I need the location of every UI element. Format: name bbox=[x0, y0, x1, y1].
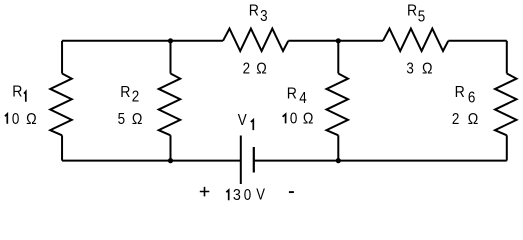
svg-text:R: R bbox=[455, 83, 465, 101]
wire right top stub bbox=[506, 41, 508, 74]
svg-text:R: R bbox=[120, 83, 130, 101]
svg-text:Ω: Ω bbox=[256, 60, 267, 78]
battery V1 positive long plate bbox=[240, 136, 242, 185]
resistor R2 bbox=[159, 74, 181, 136]
resistor R1 bbox=[50, 74, 72, 136]
wire top segment from R3 to R5 bbox=[288, 40, 383, 42]
svg-text:Ω: Ω bbox=[468, 110, 479, 128]
wire left bottom stub bbox=[61, 135, 63, 160]
node dot top right junction bbox=[336, 38, 341, 43]
wire R4 branch top stub bbox=[337, 41, 339, 74]
svg-text:4: 4 bbox=[299, 90, 306, 107]
value 130 digit 1 bbox=[226, 190, 228, 200]
svg-text:0: 0 bbox=[290, 110, 297, 127]
wire R2 branch top stub bbox=[170, 41, 172, 74]
svg-text:5: 5 bbox=[418, 8, 425, 25]
svg-text:2: 2 bbox=[132, 89, 139, 106]
svg-text:R: R bbox=[287, 85, 297, 103]
wire R2 branch bottom stub bbox=[170, 135, 172, 160]
svg-text:3: 3 bbox=[233, 187, 241, 205]
svg-text:Ω: Ω bbox=[132, 110, 143, 128]
svg-text:2: 2 bbox=[452, 111, 459, 128]
value R4 digit 1 bbox=[283, 114, 286, 123]
resistor R5 bbox=[383, 29, 448, 51]
svg-text:3: 3 bbox=[260, 8, 267, 25]
svg-text:R: R bbox=[407, 2, 417, 20]
minus sign battery polarity bbox=[289, 191, 294, 193]
wire top segment from R5 to right corner bbox=[448, 40, 507, 42]
svg-text:R: R bbox=[12, 83, 22, 101]
svg-text:R: R bbox=[249, 2, 259, 20]
node dot top left junction bbox=[168, 38, 173, 43]
svg-text:Ω: Ω bbox=[303, 110, 314, 128]
svg-text:2: 2 bbox=[243, 61, 250, 78]
resistor R4 bbox=[327, 74, 349, 136]
battery V1 negative short plate bbox=[253, 147, 255, 173]
resistor R3 bbox=[223, 29, 288, 51]
svg-text:5: 5 bbox=[118, 111, 125, 128]
svg-text:0: 0 bbox=[244, 187, 251, 204]
wire right bottom stub bbox=[506, 135, 508, 160]
wire top segment from left corner to R3 bbox=[62, 40, 223, 42]
svg-text:V: V bbox=[238, 112, 247, 129]
label V1 subscript 1 bbox=[251, 120, 254, 130]
wire bottom segment from battery to right corner bbox=[254, 160, 507, 162]
svg-text:6: 6 bbox=[468, 90, 475, 107]
resistor R6 bbox=[495, 74, 517, 136]
wire bottom segment from left corner to battery bbox=[62, 160, 241, 162]
wire R4 branch bottom stub bbox=[337, 135, 339, 160]
svg-text:3: 3 bbox=[406, 61, 413, 78]
svg-text:Ω: Ω bbox=[422, 60, 433, 78]
node dot bottom left junction bbox=[168, 158, 173, 163]
svg-text:Ω: Ω bbox=[26, 110, 37, 128]
node dot bottom right junction bbox=[336, 158, 341, 163]
plus sign battery polarity bbox=[200, 187, 210, 197]
wire left top stub bbox=[61, 41, 63, 74]
label R1 subscript 1 bbox=[24, 92, 26, 102]
svg-text:V: V bbox=[256, 187, 265, 204]
svg-text:0: 0 bbox=[12, 111, 19, 128]
value R1 digit 1 bbox=[5, 114, 7, 124]
